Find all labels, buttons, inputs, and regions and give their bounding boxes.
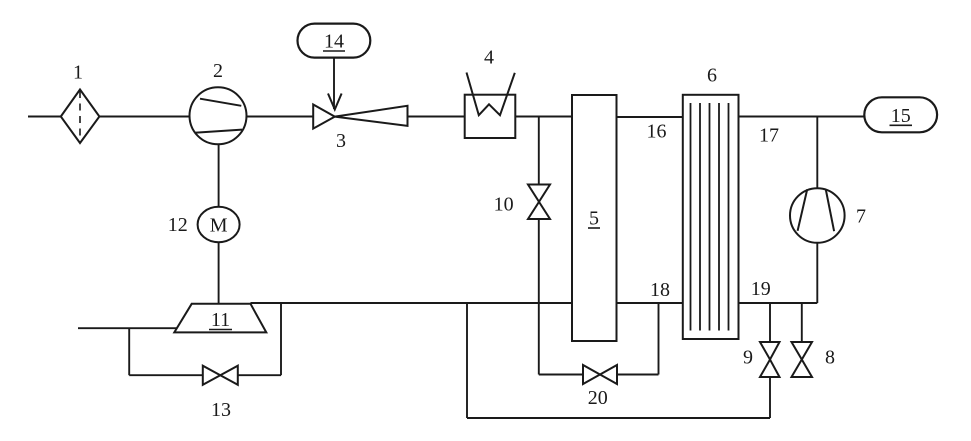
svg-text:2: 2: [213, 60, 223, 82]
heater 4: [465, 73, 516, 139]
svg-text:20: 20: [588, 387, 608, 409]
motor 12: [198, 207, 240, 242]
valve 10: [528, 185, 550, 220]
wire compressor 2 down to motor 12: [218, 144, 220, 207]
wire node 19 line exchanger 6 to fan branch: [739, 302, 818, 304]
wire bypass right riser to node 18 line: [280, 303, 282, 375]
wire branch down to valve 10: [538, 117, 540, 185]
svg-text:4: 4: [484, 47, 494, 69]
wire valve 13 bypass line: [129, 374, 203, 376]
svg-text:11: 11: [211, 309, 230, 331]
valve 9: [760, 342, 780, 377]
heat exchanger 6: [683, 95, 739, 339]
svg-text:M: M: [210, 215, 228, 237]
wire down from line 17 to fan 7: [816, 117, 818, 189]
svg-text:7: 7: [856, 206, 866, 228]
wire riser from node 18 line to bottom return line: [466, 303, 468, 418]
svg-text:13: 13: [211, 399, 231, 421]
svg-text:5: 5: [589, 208, 599, 230]
wire valve 10 down to valve 20 line: [538, 219, 540, 375]
wire node 18 line left segment: [251, 302, 573, 304]
underline 15: [890, 124, 913, 126]
svg-text:19: 19: [751, 278, 771, 300]
wire compressor 2 to valve 3: [246, 116, 313, 118]
svg-text:17: 17: [759, 125, 779, 147]
underline 11: [209, 329, 232, 331]
svg-text:9: 9: [743, 346, 753, 368]
wire riser valve 20 line up to node 18 line: [658, 303, 660, 375]
blower 11 trapezoid: [174, 304, 266, 333]
wire bottom return line: [467, 417, 770, 419]
label 14: [324, 31, 344, 53]
svg-text:6: 6: [707, 65, 717, 87]
wire main inlet line to filter 1: [28, 116, 61, 118]
underline 5: [588, 227, 600, 229]
wire filter 1 to compressor 2: [99, 116, 189, 118]
wire bypass left drop: [128, 328, 130, 375]
arrowhead into valve 3: [328, 94, 342, 110]
wire valve 20 bypass line: [539, 374, 584, 376]
filter 1: [61, 90, 100, 144]
svg-text:10: 10: [494, 194, 514, 216]
valve 20: [583, 365, 617, 384]
vessel 5: [572, 95, 617, 341]
wire heater 4 to vessel 5: [515, 116, 572, 118]
wire fan 7 down to node 19 line: [816, 243, 818, 303]
svg-text:18: 18: [650, 279, 670, 301]
terminator 15: [864, 97, 937, 132]
label 5: [589, 208, 599, 230]
valve 13: [203, 366, 238, 385]
svg-text:3: 3: [336, 130, 346, 152]
svg-text:1: 1: [73, 62, 83, 84]
valve 8: [792, 342, 813, 377]
svg-text:12: 12: [168, 214, 188, 236]
wire valve 9 down to bottom return line: [769, 377, 771, 418]
svg-text:15: 15: [891, 105, 911, 127]
wire down to valve 9: [769, 303, 771, 342]
wire node 16 vessel 5 to exchanger 6: [617, 116, 683, 118]
wire down to valve 8: [801, 303, 803, 342]
compressor 2: [190, 87, 247, 144]
wire motor 12 down to blower 11: [218, 242, 220, 303]
wire suction feed line to blower 11: [78, 327, 177, 329]
label 15: [891, 105, 911, 127]
svg-text:8: 8: [825, 346, 835, 368]
fan 7: [790, 188, 845, 243]
wire valve 3 to heater 4: [408, 116, 465, 118]
wire node 18 line right segment: [617, 302, 683, 304]
svg-text:14: 14: [324, 31, 344, 53]
terminator 14: [298, 24, 371, 58]
wire terminator 14 down to valve 3: [333, 58, 335, 109]
svg-text:16: 16: [647, 121, 667, 143]
control valve 3: [313, 105, 407, 129]
wire node 17 exchanger 6 to terminator 15: [739, 116, 865, 118]
label 11: [211, 309, 230, 331]
underline 14: [323, 50, 345, 52]
